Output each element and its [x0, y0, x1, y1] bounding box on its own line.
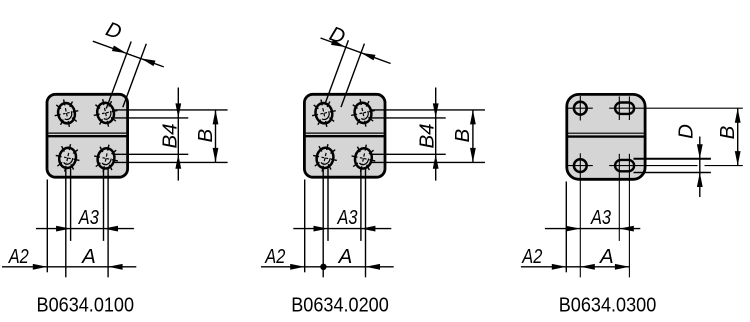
threaded hole top-right	[348, 97, 377, 129]
extension line hole BL outer	[322, 169, 324, 278]
svg-text:B: B	[716, 126, 739, 140]
threaded hole bottom-right	[349, 142, 378, 174]
arrowhead B top	[470, 110, 476, 125]
arrowhead A3 right	[361, 226, 376, 232]
arrowhead A3 left	[566, 226, 581, 232]
plate split line (thin)	[306, 132, 384, 134]
extension line D (right tangent)	[341, 44, 364, 108]
arrowhead A right	[108, 264, 123, 270]
extension line slot top edge (D)	[634, 158, 711, 160]
slot top-right (oblong hole)	[615, 103, 634, 114]
extension line B top	[112, 109, 228, 111]
arrowhead D upper	[112, 46, 127, 54]
extension line B bottom	[370, 161, 485, 163]
extension line D (left tangent)	[106, 42, 131, 109]
centerline hole top-left horizontal	[568, 107, 593, 109]
extension line B4 bottom	[113, 153, 189, 155]
threaded hole top-right	[91, 97, 120, 129]
svg-text:A: A	[80, 245, 96, 268]
arrowhead B top	[735, 108, 741, 123]
svg-text:A3: A3	[77, 206, 99, 229]
extension line plate left edge	[46, 180, 48, 273]
extension line hole BL outer	[65, 169, 67, 278]
svg-text:D: D	[326, 22, 348, 49]
threaded hole top-left	[52, 97, 81, 129]
svg-text:B: B	[194, 129, 217, 143]
arrowhead D top	[697, 144, 703, 159]
svg-text:D: D	[103, 17, 125, 44]
arrowhead A3 left	[56, 226, 71, 232]
part body B0634.0100 (clamp plate, top view)	[47, 94, 128, 177]
plate split line (thin)	[48, 132, 126, 134]
hole top-left (round hole)	[574, 102, 587, 115]
dimension line B4	[435, 88, 437, 181]
extension line hole BR outer	[107, 168, 109, 277]
part body B0634.0300 (clamp plate, top view)	[567, 94, 645, 179]
extension line hole BR outer	[365, 168, 367, 277]
extension line B bottom	[113, 161, 228, 163]
slot bottom-right (oblong hole)	[615, 160, 634, 171]
slot BR left center mark + extension	[618, 154, 620, 241]
threaded hole bottom-right	[91, 142, 120, 174]
svg-text:B0634.0200: B0634.0200	[291, 295, 389, 317]
svg-text:B0634.0100: B0634.0100	[37, 295, 135, 317]
arrowhead D upper	[331, 39, 346, 47]
plate split line (thin)	[568, 132, 644, 134]
svg-text:B0634.0300: B0634.0300	[559, 295, 657, 317]
arrowhead A2	[552, 264, 567, 270]
svg-text:B4: B4	[416, 123, 439, 148]
dimension line D	[93, 41, 164, 67]
centerline slot BR + extension for B (right)	[705, 165, 743, 167]
extension line B4 top	[368, 117, 445, 119]
plate split line (thick)	[47, 135, 128, 137]
extension line plate left edge	[304, 180, 306, 273]
extension line slot bottom edge (D)	[634, 172, 711, 174]
svg-text:A: A	[337, 245, 353, 268]
svg-text:D: D	[674, 124, 697, 139]
svg-text:B: B	[451, 129, 474, 143]
slot TR left center mark	[618, 96, 620, 120]
dimension line B4	[177, 88, 179, 181]
centerline hole TL vertical	[579, 96, 581, 121]
dimension line B	[472, 110, 474, 162]
part body B0634.0200 (clamp plate, top view)	[304, 94, 385, 177]
dimension line B	[215, 110, 217, 162]
threaded hole bottom-left	[310, 142, 339, 174]
extension line B top	[369, 109, 485, 111]
arrowhead A2	[290, 264, 305, 270]
arrowhead B bottom	[470, 148, 476, 163]
svg-text:A2: A2	[7, 245, 29, 268]
arrowhead B4 top	[433, 103, 439, 118]
plate split line (thick)	[567, 135, 645, 137]
dimension line D	[321, 38, 391, 64]
extension line D (right tangent)	[123, 44, 147, 108]
arrowhead D bottom	[697, 173, 703, 188]
centerline hole bottom-left horizontal	[568, 165, 593, 167]
chain dimension dot	[321, 264, 326, 269]
threaded hole bottom-left	[53, 142, 82, 174]
arrowhead B4 bottom	[175, 154, 181, 169]
slot TR right center mark	[628, 96, 630, 120]
svg-text:A2: A2	[521, 245, 543, 268]
arrowhead B4 bottom	[433, 154, 439, 169]
dimension line A2/A	[521, 266, 630, 268]
extension line D (left tangent)	[326, 40, 349, 102]
arrowhead A left (shared chain arrow)	[580, 264, 595, 270]
svg-text:A3: A3	[589, 206, 611, 229]
slot BR right center mark + extension	[628, 154, 630, 278]
dimension line A3	[545, 228, 640, 230]
arrowhead A right	[615, 264, 630, 270]
centerline slot BR + extension for B (left)	[609, 165, 697, 167]
arrowhead A right	[366, 264, 381, 270]
plate split line (thick)	[304, 135, 385, 137]
arrowhead A3 left	[314, 226, 329, 232]
extension line B4 top	[111, 117, 188, 119]
extension line B4 bottom	[370, 153, 446, 155]
extension line plate left edge	[565, 182, 567, 273]
extension line hole BR inner	[103, 168, 105, 241]
arrowhead A2	[33, 264, 48, 270]
extension line hole BL inner	[327, 169, 329, 241]
svg-text:A2: A2	[264, 245, 286, 268]
dimension line A2/A	[261, 266, 394, 268]
dimension line D	[699, 137, 701, 198]
hole bottom-left (round hole)	[574, 159, 587, 172]
svg-text:A: A	[598, 245, 614, 268]
arrowhead D lower	[141, 58, 156, 66]
svg-text:A3: A3	[336, 206, 358, 229]
arrowhead B top	[213, 110, 219, 125]
arrowhead B bottom	[213, 148, 219, 163]
centerline hole BL vertical + extension	[579, 153, 581, 277]
dimension line A3	[36, 228, 134, 230]
arrowhead A3 right	[104, 226, 119, 232]
svg-text:B4: B4	[158, 123, 181, 148]
extension line hole BL inner	[70, 169, 72, 241]
dimension line A3	[293, 228, 391, 230]
arrowhead B4 top	[175, 103, 181, 118]
dimension line A2/A	[2, 266, 136, 268]
arrowhead D lower	[361, 53, 376, 61]
threaded hole top-left	[309, 97, 338, 129]
arrowhead B bottom	[735, 151, 741, 166]
centerline slot TR + extension for B	[609, 107, 743, 109]
arrowhead A3 right	[619, 226, 634, 232]
dimension line B	[737, 108, 739, 165]
extension line hole BR inner	[360, 168, 362, 241]
